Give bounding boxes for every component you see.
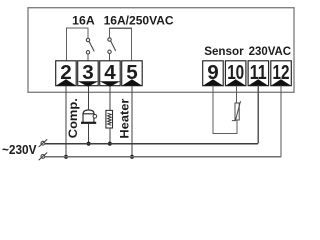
compressor M1 symbol — [81, 110, 97, 124]
wire terminal11 to upper rail — [257, 86, 259, 144]
svg-text:230VAC: 230VAC — [249, 44, 292, 58]
terminal 4 box — [100, 61, 121, 87]
supply terminal L (circle with slash) — [39, 139, 48, 147]
terminal 10 box — [225, 61, 246, 86]
svg-text:~230V: ~230V — [2, 143, 37, 157]
sensor RT thermistor — [232, 101, 241, 121]
switch S2 blade — [111, 41, 116, 51]
switch contact S1 bottom circle — [86, 51, 89, 54]
wire compressor to upper rail — [88, 124, 90, 144]
terminal 12 box — [271, 61, 292, 86]
switch contact S1 top circle — [86, 38, 89, 41]
upper power rail — [45, 143, 258, 145]
terminal 5 box — [122, 61, 143, 86]
wire S1 to terminal 3 — [87, 54, 89, 61]
terminal 3 box — [78, 61, 99, 87]
svg-text:Comp.: Comp. — [66, 98, 80, 138]
svg-text:3: 3 — [82, 61, 94, 84]
svg-text:16A/250VAC: 16A/250VAC — [104, 14, 174, 28]
terminal 11 box — [248, 61, 269, 86]
junction dot compressor/upper rail — [87, 142, 91, 146]
wire terminal10 to sensor — [235, 86, 237, 103]
wire terminal12 to lower rail — [280, 86, 282, 157]
svg-text:Sensor: Sensor — [204, 44, 244, 58]
wire heater to upper rail — [109, 128, 111, 144]
junction dot terminal5/lower rail — [130, 155, 134, 159]
heater element R1 — [106, 110, 113, 128]
svg-text:16A: 16A — [72, 14, 95, 28]
lower power rail — [45, 156, 281, 158]
switch contact S2 bottom circle — [108, 50, 111, 53]
terminal 2 box — [56, 61, 76, 86]
wire relay1 bracket — [67, 28, 89, 61]
terminal 9 box — [203, 61, 224, 86]
supply terminal N (circle with slash) — [39, 153, 48, 161]
junction dot terminal2/lower rail — [64, 155, 68, 159]
wire terminal9 sensor loop — [213, 86, 237, 134]
wire terminal5 down to lower rail — [131, 86, 133, 157]
switch S1 blade — [89, 42, 94, 52]
wire terminal2 down to lower rail — [65, 86, 67, 157]
svg-text:Heater: Heater — [118, 98, 132, 138]
device outline (controller body) — [28, 8, 294, 93]
wire terminal3 to compressor — [88, 87, 90, 110]
svg-text:4: 4 — [104, 61, 116, 84]
junction dot heater/upper rail — [108, 142, 112, 146]
wire relay2 bracket — [110, 28, 132, 61]
wire terminal4 to heater — [109, 87, 111, 111]
switch contact S2 top circle — [108, 38, 111, 41]
wire S2 to terminal 4 — [109, 54, 111, 62]
